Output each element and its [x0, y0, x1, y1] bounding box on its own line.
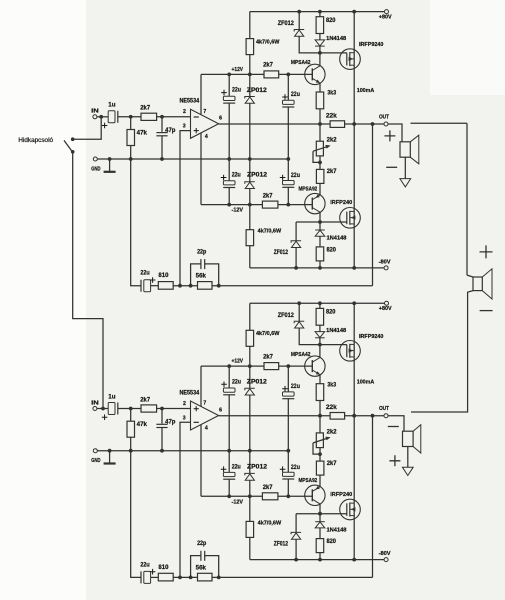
svg-text:GND: GND [91, 458, 100, 464]
svg-text:7: 7 [203, 401, 206, 407]
wire ground bus ch2 [97, 449, 290, 453]
wire 2k7 to op-amp ch1 [157, 115, 191, 119]
svg-text:MPSA92: MPSA92 [299, 478, 318, 484]
speaker minus label ch1 [386, 166, 397, 168]
svg-text:22u: 22u [140, 271, 149, 277]
svg-text:+80V: +80V [379, 14, 392, 20]
transistor MPSA42 ch2 [291, 352, 325, 377]
svg-text:-12V: -12V [232, 499, 244, 505]
svg-text:MPSA92: MPSA92 [299, 186, 318, 192]
op-amp pin3 stub wire ch1 [178, 131, 190, 288]
resistor 2k7 driver ch2 [316, 461, 337, 487]
svg-text:MPSA42: MPSA42 [291, 60, 311, 66]
capacitor 22u feedback ch1 [140, 271, 155, 292]
ground symbol ch2 [104, 451, 116, 464]
svg-text:22k: 22k [326, 405, 338, 411]
svg-text:22u: 22u [232, 88, 241, 94]
wire feedback tap ch2 [372, 416, 374, 578]
svg-text:1u: 1u [108, 394, 116, 400]
MOSFET IRFP9240 ch1 [340, 42, 384, 69]
svg-text:2k7: 2k7 [140, 106, 150, 112]
wire MOSFET drain-source column ch1 [354, 12, 374, 268]
svg-text:ZF012: ZF012 [278, 313, 295, 319]
wire OUT ch1 to bridge [411, 122, 468, 124]
resistor 2k7 input ch1 [140, 106, 156, 121]
ground arrow speaker ch2 [402, 467, 413, 475]
svg-text:ZP012: ZP012 [247, 173, 268, 179]
speaker plus label ch2 [389, 455, 400, 466]
wire feedback tap ch1 [372, 124, 374, 286]
svg-text:1N4148: 1N4148 [327, 236, 347, 242]
svg-text:6: 6 [219, 116, 222, 122]
switch bridge (Hidkapcsolo) [64, 137, 74, 153]
svg-text:-80V: -80V [379, 259, 391, 265]
wire OUT to speaker ch1 [388, 124, 402, 142]
svg-text:2k7: 2k7 [263, 193, 273, 199]
node +80V terminal ch1 [379, 10, 392, 21]
op-amp U1 NE5534 ch1 [180, 99, 223, 140]
svg-text:47p: 47p [165, 420, 176, 426]
zener ZF012 lower ch2 [274, 514, 301, 560]
trimmer 2k2 ch2 [313, 416, 337, 461]
wire bridge into speaker [467, 275, 473, 277]
wire +80V rail ch2 [250, 301, 385, 305]
svg-text:100mA: 100mA [357, 88, 375, 94]
svg-text:2k2: 2k2 [327, 429, 338, 435]
wire gate node lower ch2 [296, 512, 347, 516]
wire -80V rail ch2 [250, 558, 384, 562]
capacitor 22u MPSA42 base ch1 [282, 74, 300, 159]
svg-text:IRFP9240: IRFP9240 [359, 334, 383, 340]
capacitor 22u MPSA92 base ch1 [280, 159, 300, 205]
svg-text:2k7: 2k7 [140, 397, 150, 403]
transistor MPSA92 ch1 [299, 186, 326, 213]
svg-text:4k7/0,6W: 4k7/0,6W [258, 520, 282, 526]
wire input row ch1 [97, 116, 108, 118]
node IN ch2 (input terminal) [91, 400, 99, 410]
wire speaker to ground ch1 [404, 157, 406, 178]
zener ZF012 lower ch1 [274, 222, 301, 268]
svg-text:2: 2 [183, 109, 186, 115]
resistor 2k7 +12V rail ch2 [263, 354, 279, 369]
svg-text:ZF012: ZF012 [274, 542, 289, 548]
op-amp U2 NE5534 ch2 [180, 390, 223, 431]
capacitor 1u ch1 [102, 103, 118, 129]
svg-text:IRFP240: IRFP240 [330, 492, 352, 498]
svg-text:820: 820 [326, 247, 336, 253]
wire -12V rail ch1 [201, 203, 262, 214]
svg-text:4k7/0,6W: 4k7/0,6W [256, 39, 280, 45]
svg-text:4: 4 [205, 426, 208, 432]
bridge speaker minus label [480, 310, 493, 312]
svg-text:22k: 22k [326, 114, 338, 120]
MOSFET IRFP240 ch1 [330, 200, 360, 228]
wire IN ch1 to switch [73, 117, 102, 139]
svg-text:OUT: OUT [379, 406, 389, 412]
svg-text:ZF012: ZF012 [274, 250, 289, 256]
wire 2k7 to MPSA42 base ch2 [279, 364, 313, 368]
zener ZP012 -12V ch1 [245, 159, 268, 205]
resistor 820 upper ch2 [316, 303, 336, 325]
node -80V terminal ch1 [379, 259, 391, 270]
speaker ch2 [403, 425, 421, 453]
svg-text:22u: 22u [291, 92, 300, 98]
resistor 4k7/0.6W lower ch2 [246, 496, 282, 559]
svg-text:3k3: 3k3 [327, 91, 336, 97]
resistor 3k3 ch1 [316, 91, 337, 124]
svg-text:2k2: 2k2 [327, 138, 338, 144]
wire 1u to node A ch2 [118, 408, 141, 410]
resistor 4k7/0.6W upper ch2 [246, 303, 280, 366]
resistor 4k7/0.6W lower ch1 [246, 205, 282, 268]
svg-text:IRFP9240: IRFP9240 [359, 42, 383, 48]
capacitor 22u feedback ch2 [140, 562, 155, 583]
transistor MPSA92 ch2 [299, 478, 326, 505]
svg-text:47k: 47k [137, 422, 148, 428]
wire 2k7 to MPSA92 base ch2 [278, 494, 312, 498]
capacitor 47p ch2 [156, 409, 175, 451]
svg-text:22p: 22p [197, 249, 206, 255]
resistor 2k7 +12V rail ch1 [263, 63, 279, 78]
speaker ch1 [400, 135, 419, 164]
capacitor 1u ch2 [102, 394, 118, 420]
wire +80V rail ch1 [250, 10, 385, 14]
svg-text:22u: 22u [232, 464, 241, 470]
svg-text:+80V: +80V [379, 306, 392, 312]
svg-text:3: 3 [183, 415, 186, 421]
resistor 820 upper ch1 [316, 12, 336, 34]
diode 1N4148 upper ch2 [315, 325, 346, 344]
resistor 820 lower ch1 [316, 247, 336, 268]
wire bridge right side lower [411, 291, 473, 412]
svg-text:6: 6 [219, 407, 222, 413]
zener ZF012 upper ch1 [278, 12, 320, 53]
transistor MPSA42 ch1 [291, 60, 325, 85]
MOSFET IRFP9240 ch2 [340, 334, 384, 361]
zener ZF012 upper ch2 [278, 303, 320, 344]
svg-text:+12V: +12V [232, 359, 244, 365]
node -80V terminal ch2 [379, 551, 391, 562]
op-amp pin4 supply wire ch2 [200, 425, 202, 496]
trimmer 2k2 ch1 [313, 124, 337, 169]
resistor 47k ch2 [127, 407, 148, 451]
wire output rail left ch1 [219, 122, 331, 126]
svg-text:22u: 22u [291, 173, 300, 179]
node IN ch1 (input terminal) [91, 109, 103, 119]
svg-text:47p: 47p [165, 128, 176, 134]
wire output rail right ch2 [345, 414, 384, 418]
svg-text:IRFP240: IRFP240 [330, 200, 352, 206]
zener ZP012 -12V ch2 [245, 451, 268, 497]
op-amp pin3 stub wire ch2 [178, 422, 190, 579]
resistor 810 feedback ch1 [158, 273, 173, 289]
wire 810 to 56k ch1 [173, 284, 197, 288]
wire MPSA42 emitter to 3k3 ch1 [319, 83, 321, 92]
diode 1N4148 upper ch1 [315, 34, 346, 53]
svg-text:2k7: 2k7 [327, 169, 337, 175]
resistor 820 lower ch2 [316, 539, 336, 560]
op-amp pin4 supply wire ch1 [200, 133, 202, 204]
resistor 56k feedback ch2 [196, 565, 212, 581]
svg-text:4k7/0,6W: 4k7/0,6W [258, 229, 282, 235]
wire 22u to 810 ch1 [151, 285, 159, 287]
resistor 47k ch1 [127, 115, 148, 159]
svg-text:22u: 22u [291, 465, 300, 471]
node OUT ch1 [379, 114, 389, 126]
wire ground bus ch1 [97, 157, 290, 161]
resistor 2k7 driver ch1 [316, 169, 337, 195]
wire gate node upper ch1 [318, 51, 347, 66]
svg-text:ZP012: ZP012 [247, 88, 268, 94]
MOSFET IRFP240 ch2 [330, 492, 360, 520]
svg-text:2k7: 2k7 [263, 63, 273, 69]
wire bridge right side upper [466, 123, 468, 275]
svg-text:820: 820 [326, 539, 336, 545]
svg-text:810: 810 [158, 565, 169, 571]
wire -80V rail ch1 [250, 266, 384, 270]
ground arrow speaker ch1 [400, 179, 411, 187]
capacitor 22u -12V rail ch2 [221, 451, 241, 497]
svg-text:IN: IN [91, 109, 99, 115]
svg-text:820: 820 [326, 310, 336, 316]
wire feedback row to tap ch1 [212, 284, 373, 288]
node GND ch1 [91, 157, 100, 172]
capacitor 22u MPSA92 base ch2 [280, 451, 300, 497]
wire MPSA92 collector to gate node ch2 [319, 504, 321, 514]
svg-text:NE5534: NE5534 [180, 99, 200, 105]
capacitor 47p ch1 [156, 117, 175, 159]
node +80V terminal ch2 [379, 301, 392, 312]
capacitor 22u MPSA42 base ch2 [282, 366, 300, 451]
svg-text:2: 2 [183, 401, 186, 407]
wire 2k7 to MPSA92 base ch1 [278, 203, 312, 207]
svg-text:ZF012: ZF012 [278, 21, 295, 27]
wire output rail right ch1 [345, 122, 384, 126]
svg-text:22u: 22u [232, 173, 241, 179]
svg-text:3: 3 [183, 124, 186, 130]
svg-text:-80V: -80V [379, 551, 391, 557]
svg-text:4: 4 [205, 134, 208, 140]
diode 1N4148 lower ch1 [315, 222, 346, 247]
wire 2k7 to MPSA42 base ch1 [279, 73, 313, 77]
wire 22u to 810 ch2 [151, 576, 159, 578]
resistor 22k ch2 [326, 405, 345, 419]
op-amp pin7 supply wire ch2 [200, 366, 202, 406]
wire +12V rail ch2 [201, 359, 264, 369]
svg-text:OUT: OUT [379, 114, 389, 120]
svg-text:820: 820 [326, 18, 336, 24]
resistor 2k7 -12V rail ch2 [262, 485, 278, 500]
svg-text:7: 7 [203, 109, 206, 115]
wire MPSA42 emitter to 3k3 ch2 [319, 375, 321, 384]
capacitor 22u -12V rail ch1 [221, 159, 241, 205]
svg-text:-12V: -12V [232, 208, 244, 214]
capacitor 22u +12V rail ch2 [221, 366, 241, 451]
resistor 22k ch1 [326, 114, 345, 128]
wire +12V rail ch1 [201, 67, 264, 77]
node OUT ch2 [379, 406, 389, 418]
svg-text:+12V: +12V [232, 67, 244, 73]
wire ground to feedback row ch2 [131, 451, 141, 578]
svg-text:1u: 1u [108, 103, 116, 109]
svg-text:22p: 22p [197, 541, 206, 547]
svg-text:ZP012: ZP012 [247, 380, 268, 386]
wire ground to feedback row ch1 [131, 159, 141, 286]
wire feedback row to tap ch2 [212, 576, 373, 580]
node GND ch2 [91, 449, 100, 464]
ground symbol ch1 [104, 159, 116, 172]
svg-text:22u: 22u [291, 384, 300, 390]
op-amp pin7 supply wire ch1 [200, 74, 202, 114]
svg-text:NE5534: NE5534 [180, 390, 200, 396]
capacitor 22p feedback ch2 [191, 541, 219, 577]
wire MPSA92 collector to gate node ch1 [319, 212, 321, 222]
resistor 4k7/0.6W upper ch1 [246, 12, 280, 75]
wire output rail left ch2 [219, 414, 331, 418]
svg-text:1N4148: 1N4148 [326, 328, 346, 334]
svg-text:2k7: 2k7 [327, 461, 337, 467]
resistor 810 feedback ch2 [158, 565, 173, 581]
svg-text:ZP012: ZP012 [247, 464, 268, 470]
wire 1u to node A ch1 [118, 116, 141, 118]
svg-text:100mA: 100mA [357, 380, 375, 386]
wire -12V rail ch2 [201, 494, 262, 505]
svg-text:4k7/0,6W: 4k7/0,6W [256, 331, 280, 337]
svg-text:2k7: 2k7 [263, 485, 273, 491]
bridge speaker [473, 269, 492, 299]
svg-text:1N4148: 1N4148 [327, 527, 347, 533]
wire gate node lower ch1 [296, 220, 347, 224]
wire speaker to ground ch2 [407, 447, 409, 468]
svg-text:810: 810 [158, 273, 169, 279]
wire gate node upper ch2 [318, 343, 347, 358]
svg-text:GND: GND [91, 166, 100, 172]
svg-text:56k: 56k [196, 565, 207, 571]
label Hidkapcsolo [18, 138, 53, 144]
speaker plus label ch1 [384, 130, 395, 141]
speaker minus label ch2 [388, 426, 399, 428]
wire switch to ch2 input [73, 152, 105, 411]
svg-text:MPSA42: MPSA42 [291, 352, 311, 358]
diode 1N4148 lower ch2 [315, 514, 346, 539]
wire 810 to 56k ch2 [173, 576, 197, 580]
capacitor 22u +12V rail ch1 [221, 74, 241, 159]
svg-text:22u: 22u [140, 562, 149, 568]
capacitor 22p feedback ch1 [191, 249, 219, 285]
svg-text:56k: 56k [196, 274, 207, 280]
wire MOSFET drain-source column ch2 [354, 303, 374, 559]
resistor 3k3 ch2 [316, 382, 337, 415]
wire input row ch2 [97, 408, 108, 410]
resistor 2k7 input ch2 [140, 397, 156, 412]
svg-text:47k: 47k [137, 130, 148, 136]
svg-text:2k7: 2k7 [263, 354, 273, 360]
svg-text:IN: IN [91, 400, 99, 406]
bridge speaker plus label [480, 245, 493, 258]
svg-text:Hidkapcsoló: Hidkapcsoló [18, 138, 53, 144]
resistor 56k feedback ch1 [196, 274, 212, 290]
svg-text:22u: 22u [232, 379, 241, 385]
zener ZP012 +12V ch2 [245, 366, 268, 451]
zener ZP012 +12V ch1 [245, 74, 268, 159]
wire OUT to speaker ch2 [388, 416, 404, 432]
resistor 2k7 -12V rail ch1 [262, 193, 278, 208]
svg-text:3k3: 3k3 [327, 382, 336, 388]
svg-text:1N4148: 1N4148 [326, 36, 346, 42]
wire 2k7 to op-amp ch2 [157, 407, 191, 411]
